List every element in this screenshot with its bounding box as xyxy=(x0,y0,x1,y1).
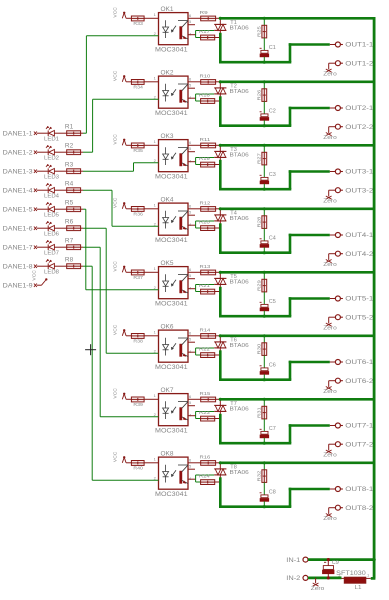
connector OUT7-2 xyxy=(335,442,374,449)
resistor R16 xyxy=(200,454,216,465)
junction bottom line / C8 xyxy=(263,505,266,508)
svg-text:OK3: OK3 xyxy=(161,134,175,140)
wire OUT3-2 to Zero xyxy=(329,190,336,196)
LED LED8 xyxy=(41,259,67,275)
resistor R12 xyxy=(200,200,216,211)
wire thick: T6 MT1 down xyxy=(219,350,222,381)
resistor R32 (snubber) xyxy=(256,470,266,483)
svg-text:LED8: LED8 xyxy=(44,270,59,276)
svg-text:R9: R9 xyxy=(200,10,209,15)
svg-text:5: 5 xyxy=(189,337,192,342)
OK7 pin 6 wire to R15 xyxy=(188,398,201,400)
OK1 pin 5 stub xyxy=(188,24,195,26)
svg-text:OUT5-1: OUT5-1 xyxy=(345,297,374,303)
svg-text:Zero: Zero xyxy=(323,135,337,141)
svg-text:Zero: Zero xyxy=(311,586,325,592)
wire thick: channel 8 bottom line xyxy=(219,505,291,508)
wire thick: T8 MT1 down xyxy=(219,477,222,508)
junction top line / R30 xyxy=(263,334,266,337)
wire R33 to OK1 pin 1 xyxy=(144,17,158,19)
VCC supply symbol (channel 2) xyxy=(113,70,127,82)
svg-text:R22: R22 xyxy=(199,347,210,352)
opto-triac OK7 MOC3041 xyxy=(154,388,192,435)
resistor R13 xyxy=(200,264,216,275)
LED LED7 xyxy=(41,240,67,256)
svg-text:R25: R25 xyxy=(256,26,261,37)
svg-text:1: 1 xyxy=(154,266,157,271)
wire R6 out xyxy=(81,227,83,229)
svg-text:1: 1 xyxy=(154,75,157,80)
OK4 pin 5 stub xyxy=(188,214,195,216)
wire C6 to bottom line xyxy=(263,374,265,379)
wire thick: channel 6 up to OUT6-1 xyxy=(289,361,292,380)
svg-text:4: 4 xyxy=(189,476,192,481)
junction bottom line / C2 xyxy=(263,124,266,127)
svg-text:R14: R14 xyxy=(200,327,211,332)
svg-text:BTA06: BTA06 xyxy=(230,407,249,413)
wire thick: channel 7 bottom line xyxy=(219,442,291,445)
wire R9 to triac T1 MT2 node xyxy=(216,17,221,19)
wire R17 to MT1 node xyxy=(215,37,222,39)
wire C4 to bottom line xyxy=(263,247,265,252)
svg-text:LED4: LED4 xyxy=(44,194,59,200)
svg-text:DANE1-9: DANE1-9 xyxy=(3,283,34,289)
svg-text:Zero: Zero xyxy=(323,326,337,332)
wire R16 to triac T8 MT2 node xyxy=(216,462,221,464)
supply Zero (channel 6) xyxy=(323,387,337,396)
OK6 pin 4 stub xyxy=(188,351,196,353)
junction top line / R32 xyxy=(263,461,266,464)
snubber net: top line to R26 xyxy=(263,82,265,89)
VCC supply symbol (channel 3) xyxy=(113,134,127,146)
svg-text:1: 1 xyxy=(154,393,157,398)
junction IN-1 / C9 xyxy=(327,558,330,561)
resistor R34 xyxy=(131,80,144,90)
resistor R11 xyxy=(200,137,216,148)
svg-text:OUT3-2: OUT3-2 xyxy=(345,188,374,194)
svg-text:R3: R3 xyxy=(65,162,74,168)
pin DANE1-7 xyxy=(3,245,41,251)
OK8 pin 5 stub xyxy=(188,468,195,470)
wire thick: channel 2 up to OUT2-1 xyxy=(289,107,292,126)
svg-text:C1: C1 xyxy=(269,45,276,51)
wire R38 to OK6 pin 1 xyxy=(144,335,158,337)
svg-text:OUT8-2: OUT8-2 xyxy=(345,506,374,512)
supply Zero (channel 7) xyxy=(323,450,337,459)
wire R27 to C3 xyxy=(263,165,265,178)
svg-text:R10: R10 xyxy=(200,73,211,78)
wire gate net OK2 pin4 to T2 gate xyxy=(196,94,215,101)
wire R8 out xyxy=(81,265,83,267)
svg-text:R21: R21 xyxy=(199,283,210,288)
supply Zero (channel 5) xyxy=(323,323,337,332)
svg-text:C5: C5 xyxy=(269,299,276,305)
wire thick: channel 1 up to OUT1-1 xyxy=(289,43,292,62)
svg-text:BTA06: BTA06 xyxy=(230,153,249,159)
OK2 pin 4 stub xyxy=(188,97,196,99)
VCC supply symbol (channel 8) xyxy=(113,451,127,463)
opto-triac OK6 MOC3041 xyxy=(154,324,192,371)
wire thick: L1 to rail xyxy=(371,577,376,580)
connector IN-1 xyxy=(286,557,310,564)
VCC supply symbol (channel 6) xyxy=(113,324,127,336)
wire C7 to bottom line xyxy=(263,438,265,443)
wire VCC to R36 xyxy=(126,208,131,210)
svg-text:OUT2-1: OUT2-1 xyxy=(345,106,374,112)
OK1 pin 4 stub xyxy=(188,34,196,36)
wire C2 to bottom line xyxy=(263,120,265,125)
svg-text:R8: R8 xyxy=(65,257,74,263)
wire R31 to C7 xyxy=(263,419,265,432)
junction T6 MT2 / R14 xyxy=(219,334,222,337)
snubber net: top line to R30 xyxy=(263,336,265,343)
svg-text:BTA06: BTA06 xyxy=(230,470,249,476)
svg-text:R5: R5 xyxy=(65,200,74,206)
wire VCC to R38 xyxy=(126,335,131,337)
pin DANE1-5 xyxy=(3,207,41,213)
wire R18 to MT1 node xyxy=(215,100,222,102)
svg-text:OUT1-2: OUT1-2 xyxy=(345,61,374,67)
wire R15 to triac T7 MT2 node xyxy=(216,398,221,400)
svg-text:MOC3041: MOC3041 xyxy=(155,173,188,180)
opto-triac OK8 MOC3041 xyxy=(154,451,192,498)
svg-text:VCC: VCC xyxy=(32,270,38,281)
wire thick: channel 4 bottom line xyxy=(219,251,291,254)
wire gate net OK7 pin4 to T7 gate xyxy=(196,412,215,419)
pin DANE1-9 xyxy=(3,283,41,289)
OK5 pin 4 stub xyxy=(188,288,196,290)
OK5 pin 5 stub xyxy=(188,278,195,280)
junction T7 MT2 / R15 xyxy=(219,398,222,401)
junction bottom line / C5 xyxy=(263,315,266,318)
snubber net: top line to R27 xyxy=(263,145,265,152)
triac T1 BTA06 xyxy=(214,18,249,34)
svg-text:4: 4 xyxy=(189,285,192,290)
wire thick: channel 6 top line to rail xyxy=(220,334,375,337)
wire VCC to R33 xyxy=(126,17,131,19)
OK8 pin 4 stub xyxy=(188,478,196,480)
wire R1 out xyxy=(81,132,83,134)
junction top line / R27 xyxy=(263,144,266,147)
wire thick: IN-1 to rail xyxy=(308,558,376,561)
wire R40 to OK8 pin 1 xyxy=(144,462,158,464)
svg-text:OK4: OK4 xyxy=(161,197,175,203)
wire thick: channel 2 bottom line xyxy=(219,124,291,127)
svg-text:DANE1-1: DANE1-1 xyxy=(3,131,34,137)
wire gate net OK6 pin4 to T6 gate xyxy=(196,348,215,355)
svg-text:1: 1 xyxy=(154,12,157,17)
junction top line / R26 xyxy=(263,80,266,83)
svg-text:R23: R23 xyxy=(199,410,210,415)
svg-text:C2: C2 xyxy=(269,108,276,114)
svg-text:LED3: LED3 xyxy=(44,175,59,181)
svg-text:4: 4 xyxy=(189,349,192,354)
resistor R38 xyxy=(131,334,144,344)
svg-text:R11: R11 xyxy=(200,137,211,142)
svg-text:DANE1-4: DANE1-4 xyxy=(3,188,34,194)
wire R30 to C6 xyxy=(263,355,265,368)
svg-text:DANE1-7: DANE1-7 xyxy=(3,245,34,251)
triac T6 BTA06 xyxy=(214,336,249,352)
svg-text:LED7: LED7 xyxy=(44,251,59,257)
connector OUT1-2 xyxy=(335,61,374,68)
capacitor C9 xyxy=(323,560,340,578)
OK3 pin 5 stub xyxy=(188,151,195,153)
sheet origin crosshair xyxy=(85,344,96,355)
wire thick: T1 MT1 down xyxy=(219,33,222,64)
resistor R9 xyxy=(200,10,216,21)
wire C5 to bottom line xyxy=(263,311,265,316)
wire IN-2 to Zero xyxy=(315,578,317,583)
pin DANE1-3 xyxy=(3,169,41,175)
connector OUT3-1 xyxy=(330,169,374,176)
OK8 pin 6 wire to R16 xyxy=(188,462,201,464)
svg-text:Zero: Zero xyxy=(323,389,337,395)
svg-text:R32: R32 xyxy=(256,470,261,481)
wire thick: channel 6 OUT6-1 feed xyxy=(289,361,330,364)
svg-text:Zero: Zero xyxy=(323,72,337,78)
wire thick: channel 8 top line to rail xyxy=(220,461,375,464)
connector OUT4-2 xyxy=(335,251,374,258)
svg-text:MOC3041: MOC3041 xyxy=(155,110,188,117)
VCC supply symbol (channel 4) xyxy=(113,197,127,209)
svg-text:R26: R26 xyxy=(256,89,261,100)
VCC supply symbol (channel 1) xyxy=(113,7,127,19)
wire thick: T4 MT1 down xyxy=(219,223,222,254)
resistor R22 (gate) xyxy=(199,347,215,358)
svg-text:R1: R1 xyxy=(65,124,74,130)
wire OUT5-2 to Zero xyxy=(329,317,336,323)
connector OUT6-1 xyxy=(330,360,374,367)
wire net R2 to OK2 pin 2 xyxy=(83,99,159,152)
svg-text:LED6: LED6 xyxy=(44,232,59,238)
svg-text:R37: R37 xyxy=(133,275,143,280)
junction bottom line / C1 xyxy=(263,61,266,64)
resistor R29 (snubber) xyxy=(256,279,266,292)
wire R29 to C5 xyxy=(263,292,265,305)
wire thick: channel 6 bottom line xyxy=(219,378,291,381)
svg-text:4: 4 xyxy=(189,158,192,163)
svg-text:OUT6-2: OUT6-2 xyxy=(345,379,374,385)
svg-text:4: 4 xyxy=(189,95,192,100)
svg-text:DANE1-8: DANE1-8 xyxy=(3,264,34,270)
svg-text:LED5: LED5 xyxy=(44,213,59,219)
svg-text:4: 4 xyxy=(189,412,192,417)
capacitor C7 (snubber) xyxy=(260,426,276,438)
supply Zero (channel 8) xyxy=(323,514,337,523)
resistor R10 xyxy=(200,73,216,84)
OK2 pin 5 stub xyxy=(188,87,195,89)
connector OUT6-2 xyxy=(335,378,374,385)
wire thick: channel 4 up to OUT4-1 xyxy=(289,234,292,253)
svg-text:Zero: Zero xyxy=(323,199,337,205)
resistor R15 xyxy=(200,391,216,402)
svg-text:OUT8-1: OUT8-1 xyxy=(345,487,374,493)
capacitor C4 (snubber) xyxy=(260,235,276,247)
svg-text:MOC3041: MOC3041 xyxy=(155,491,188,498)
connector OUT8-2 xyxy=(335,505,374,512)
connector OUT3-2 xyxy=(335,188,374,195)
svg-text:R17: R17 xyxy=(199,29,210,34)
svg-text:OK6: OK6 xyxy=(161,324,175,330)
svg-text:5: 5 xyxy=(189,146,192,151)
wire R32 to C8 xyxy=(263,482,265,495)
svg-text:C6: C6 xyxy=(269,362,276,368)
inductor L1 SFT1030 xyxy=(336,571,371,591)
OK3 pin 6 wire to R11 xyxy=(188,144,201,146)
svg-text:DANE1-6: DANE1-6 xyxy=(3,226,34,232)
wire C8 to bottom line xyxy=(263,501,265,506)
resistor R26 (snubber) xyxy=(256,89,266,102)
resistor R27 (snubber) xyxy=(256,152,266,165)
wire net R8 to OK8 pin 2 xyxy=(83,266,159,480)
svg-text:R39: R39 xyxy=(133,402,143,407)
svg-text:5: 5 xyxy=(189,400,192,405)
triac T8 BTA06 xyxy=(214,463,249,479)
wire thick: channel 3 OUT3-1 feed xyxy=(289,170,330,173)
svg-text:R29: R29 xyxy=(256,280,261,291)
supply Zero (input) xyxy=(311,583,325,592)
OK6 pin 6 wire to R14 xyxy=(188,335,201,337)
svg-text:1: 1 xyxy=(154,139,157,144)
svg-text:R24: R24 xyxy=(199,474,210,479)
wire VCC to R35 xyxy=(126,144,131,146)
svg-text:R28: R28 xyxy=(256,216,261,227)
wire R14 to triac T6 MT2 node xyxy=(216,335,221,337)
wire OUT4-2 to Zero xyxy=(329,254,336,260)
resistor R23 (gate) xyxy=(199,410,215,421)
resistor R40 xyxy=(131,461,144,471)
svg-text:DANE1-2: DANE1-2 xyxy=(3,150,34,156)
wire gate net OK5 pin4 to T5 gate xyxy=(196,285,215,292)
svg-text:1: 1 xyxy=(154,329,157,334)
svg-text:MOC3041: MOC3041 xyxy=(155,46,188,53)
wire net R1 to OK1 pin 2 xyxy=(83,36,159,133)
junction T1 MT2 / R9 xyxy=(219,17,222,20)
svg-text:OUT3-1: OUT3-1 xyxy=(345,170,374,176)
resistor R37 xyxy=(131,270,144,280)
svg-text:Zero: Zero xyxy=(323,516,337,522)
wire C3 to bottom line xyxy=(263,184,265,189)
wire OUT7-2 to Zero xyxy=(329,444,336,450)
wire R4 out xyxy=(81,189,83,191)
wire R20 to MT1 node xyxy=(215,227,222,229)
wire thick: channel 5 top line to rail xyxy=(220,271,375,274)
wire thick: channel 5 up to OUT5-1 xyxy=(289,297,292,316)
wire R35 to OK3 pin 1 xyxy=(144,144,158,146)
wire R28 to C4 xyxy=(263,228,265,241)
svg-text:5: 5 xyxy=(189,464,192,469)
svg-text:VCC: VCC xyxy=(113,451,119,462)
connector OUT5-2 xyxy=(335,315,374,322)
svg-text:5: 5 xyxy=(189,273,192,278)
triac T2 BTA06 xyxy=(214,82,249,98)
VCC supply at DANE1-9 xyxy=(32,270,48,286)
resistor R21 (gate) xyxy=(199,283,215,294)
wire R21 to MT1 node xyxy=(215,291,222,293)
wire thick: channel 8 OUT8-1 feed xyxy=(289,488,330,491)
resistor R2 xyxy=(65,143,81,154)
svg-text:DANE1-5: DANE1-5 xyxy=(3,207,34,213)
wire thick: T5 MT1 down xyxy=(219,287,222,318)
junction top line / R31 xyxy=(263,398,266,401)
resistor R25 (snubber) xyxy=(256,25,266,38)
junction T2 MT2 / R10 xyxy=(219,80,222,83)
wire C1 to bottom line xyxy=(263,57,265,62)
resistor R19 (gate) xyxy=(199,156,215,167)
OK3 pin 4 stub xyxy=(188,161,196,163)
junction top line / R25 xyxy=(263,17,266,20)
OK4 pin 4 stub xyxy=(188,224,196,226)
wire R19 to MT1 node xyxy=(215,164,222,166)
svg-text:4: 4 xyxy=(189,31,192,36)
svg-text:R2: R2 xyxy=(65,143,74,149)
svg-text:5: 5 xyxy=(189,210,192,215)
svg-text:L1: L1 xyxy=(355,585,362,591)
capacitor C2 (snubber) xyxy=(260,108,276,120)
svg-text:OK2: OK2 xyxy=(161,70,175,76)
svg-text:OK7: OK7 xyxy=(161,388,175,394)
connector OUT8-1 xyxy=(330,487,374,494)
opto-triac OK2 MOC3041 xyxy=(154,70,192,117)
svg-text:6: 6 xyxy=(189,76,192,81)
svg-text:VCC: VCC xyxy=(113,388,119,399)
svg-text:OUT2-2: OUT2-2 xyxy=(345,125,374,131)
junction T3 MT2 / R11 xyxy=(219,144,222,147)
junction IN-2 / C9 xyxy=(327,576,330,579)
resistor R28 (snubber) xyxy=(256,216,266,229)
wire R2 out xyxy=(81,151,83,153)
svg-text:C8: C8 xyxy=(269,489,276,495)
svg-text:OK5: OK5 xyxy=(161,261,175,267)
svg-text:DANE1-3: DANE1-3 xyxy=(3,169,34,175)
OK7 pin 4 stub xyxy=(188,415,196,417)
resistor R4 xyxy=(65,181,81,192)
opto-triac OK4 MOC3041 xyxy=(154,197,192,244)
svg-text:R36: R36 xyxy=(133,212,143,217)
resistor R20 (gate) xyxy=(199,220,215,231)
svg-text:BTA06: BTA06 xyxy=(230,26,249,32)
snubber net: top line to R29 xyxy=(263,272,265,279)
wire R39 to OK7 pin 1 xyxy=(144,398,158,400)
svg-text:R27: R27 xyxy=(256,153,261,164)
connector OUT1-1 xyxy=(330,42,374,49)
resistor R8 xyxy=(65,257,81,268)
wire R34 to OK2 pin 1 xyxy=(144,81,158,83)
LED LED5 xyxy=(41,202,67,218)
svg-text:VCC: VCC xyxy=(113,7,119,18)
wire R12 to triac T4 MT2 node xyxy=(216,208,221,210)
wire thick: channel 7 top line to rail xyxy=(220,398,375,401)
svg-text:6: 6 xyxy=(189,267,192,272)
junction top line / R28 xyxy=(263,207,266,210)
wire R11 to triac T3 MT2 node xyxy=(216,144,221,146)
svg-text:C7: C7 xyxy=(269,426,276,432)
opto-triac OK1 MOC3041 xyxy=(154,7,192,54)
wire R13 to triac T5 MT2 node xyxy=(216,271,221,273)
pin DANE1-6 xyxy=(3,226,41,232)
pin DANE1-1 xyxy=(3,131,41,137)
svg-text:OK1: OK1 xyxy=(161,7,175,13)
wire R3 out xyxy=(81,170,83,172)
svg-text:6: 6 xyxy=(189,13,192,18)
triac T3 BTA06 xyxy=(214,145,249,161)
capacitor C3 (snubber) xyxy=(260,172,276,184)
wire thick: channel 5 bottom line xyxy=(219,315,291,318)
svg-text:OUT6-1: OUT6-1 xyxy=(345,360,374,366)
resistor R36 xyxy=(131,207,144,217)
svg-text:5: 5 xyxy=(189,19,192,24)
